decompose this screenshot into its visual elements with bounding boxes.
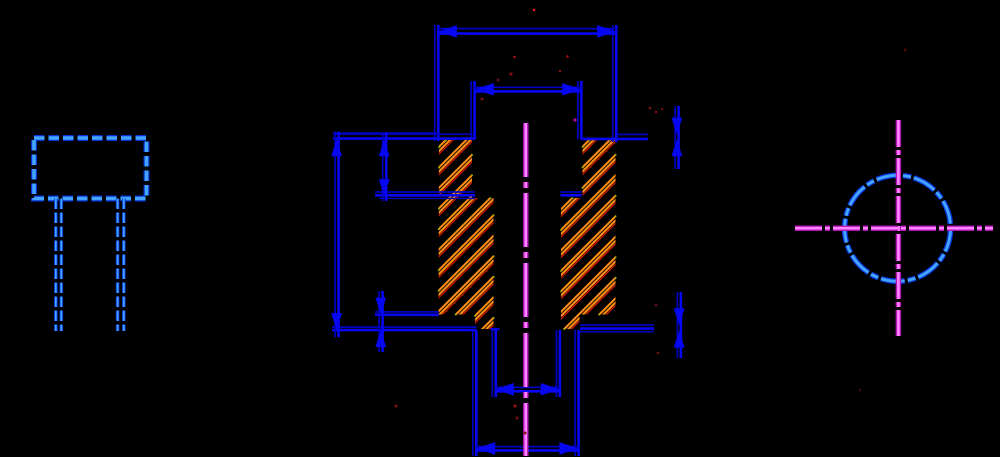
left view flange rectangle (dashed) (34, 138, 147, 199)
part outer edge right (vertical) (613, 25, 617, 142)
top face line right + extension (582, 138, 649, 141)
counterbore shoulder left + extension (375, 192, 475, 198)
dimension line D7 (bottom lip right) (674, 292, 685, 358)
boss wall right extension (575, 330, 579, 456)
boss wall left extension (473, 330, 477, 456)
dimension line D9 (boss dia) (476, 442, 579, 455)
dimension line D4 (counterbore depth) (379, 133, 390, 202)
counterbore wall left (471, 81, 475, 140)
section hatch left wall (225, 130, 1000, 344)
section hatch right wall (225, 130, 1000, 344)
right view vertical centerline (896, 120, 902, 336)
counterbore shoulder right (561, 192, 582, 195)
top face echo left (333, 132, 438, 134)
bottom face line A left (375, 312, 439, 315)
dimension line D6 (top lip right) (672, 106, 683, 169)
bottom face line B left + extension (332, 327, 477, 330)
dimension line D8 (bore dia) (495, 383, 561, 396)
bore wall left extension (491, 329, 500, 397)
dimension line D3 (overall height) (331, 132, 342, 338)
part outer edge left (vertical) (435, 25, 439, 141)
counterbore wall right (578, 81, 582, 140)
centerline of bore (magenta dash-dot) (523, 123, 529, 456)
faint dimension-text remnants (noise dots) (395, 9, 907, 435)
top face echo right (618, 133, 649, 135)
right view circle (dashed) (845, 175, 951, 281)
right view horizontal centerline (795, 225, 993, 231)
bottom face lines right + extension (580, 325, 654, 332)
top face line left + extension (333, 134, 475, 138)
left view shank lines (dashed) (56, 199, 124, 332)
bore wall right extension (556, 330, 560, 397)
dimension line D5 (bottom step left) (375, 291, 386, 352)
dimension line D2 (counterbore dia) (475, 83, 582, 96)
hatch stroke endpoint dots (438, 139, 617, 330)
dimension line D1 (outer dia) (438, 25, 617, 38)
